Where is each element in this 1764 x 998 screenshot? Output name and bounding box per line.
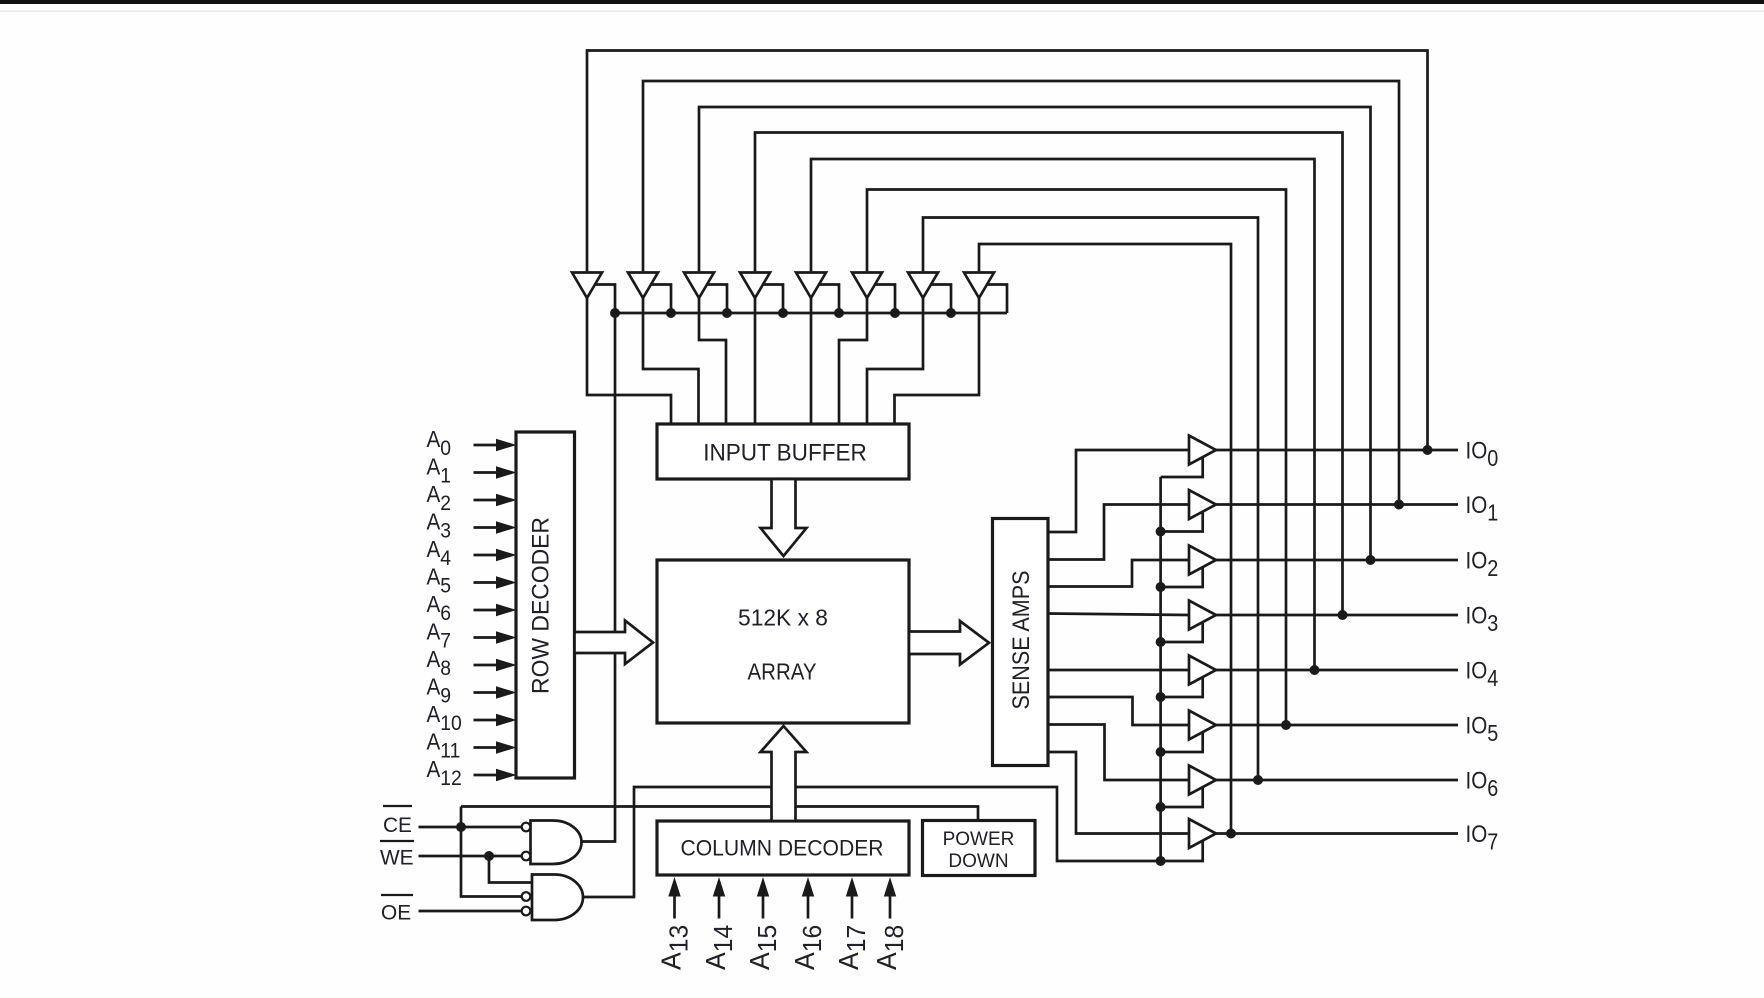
wire: buffer B7 output to INPUT BUFFER pin 7 bbox=[867, 298, 923, 424]
SENSE AMPS box bbox=[993, 519, 1049, 766]
output buffer Q3 (tri-state) bbox=[1189, 601, 1216, 630]
input A17: arrow into COLUMN DECODER and rotated label bbox=[851, 893, 854, 919]
wire: SENSE AMPS output 3 to output buffer Q3 bbox=[1048, 614, 1189, 616]
wire: WE input line bbox=[419, 855, 523, 858]
wire: output buffer Q6 enable tap bbox=[1161, 785, 1203, 807]
junction dot node IO5 bbox=[1281, 720, 1291, 730]
wire: buffer B6 enable tap bbox=[872, 285, 895, 314]
wire: SENSE AMPS output 5 to output buffer Q5 bbox=[1048, 697, 1189, 725]
svg-text:COLUMN DECODER: COLUMN DECODER bbox=[680, 835, 883, 861]
wire: IO7 feedback loop (top) from IO7 node to input buffer B8 bbox=[979, 244, 1231, 834]
wire: IO4 feedback loop (top) from IO4 node to input buffer B5 bbox=[811, 159, 1315, 670]
wire: buffer B2 output to INPUT BUFFER pin 2 bbox=[643, 298, 699, 424]
wire: buffer B5 output to INPUT BUFFER pin 5 bbox=[810, 298, 813, 424]
bus arrow: ROW DECODER to ARRAY bbox=[575, 621, 654, 665]
input A16: arrow into COLUMN DECODER and rotated label bbox=[807, 893, 810, 919]
wire: buffer B8 enable tap bbox=[984, 285, 1007, 314]
wire: WE branch down to gate G2 (uninverted input) bbox=[489, 856, 532, 883]
wire: OE input line to gate G2 bbox=[419, 910, 523, 913]
svg-text:POWER: POWER bbox=[943, 829, 1015, 850]
wire: IO1 output line bbox=[1216, 503, 1458, 506]
buffer B7 (input buffer, tri-state) bbox=[908, 273, 938, 299]
junction dot node IO2 bbox=[1366, 555, 1376, 565]
output buffer Q4 (tri-state) bbox=[1189, 656, 1216, 685]
output buffer Q1 (tri-state) bbox=[1189, 490, 1216, 519]
buffer B5 (input buffer, tri-state) bbox=[796, 273, 826, 299]
svg-text:INPUT BUFFER: INPUT BUFFER bbox=[703, 439, 867, 466]
junction dot on CE line bbox=[456, 822, 466, 832]
buffer B4 (input buffer, tri-state) bbox=[740, 273, 770, 299]
buffer B8 (input buffer, tri-state) bbox=[964, 273, 994, 299]
wire: buffer B6 output to INPUT BUFFER pin 6 bbox=[839, 298, 867, 424]
wire: buffer B1 enable tap bbox=[592, 285, 615, 314]
junction dot on enable bus at B7 bbox=[946, 308, 956, 318]
svg-text:512K x 8: 512K x 8 bbox=[738, 604, 828, 630]
svg-text:ARRAY: ARRAY bbox=[748, 658, 817, 685]
junction dot on enable bus at B4 bbox=[778, 308, 788, 318]
junction dot on output enable line at Q5 bbox=[1156, 747, 1166, 757]
wire: SENSE AMPS output 4 to output buffer Q4 bbox=[1048, 669, 1189, 672]
buffer B6 (input buffer, tri-state) bbox=[852, 273, 882, 299]
wire: SENSE AMPS output 1 to output buffer Q1 bbox=[1048, 505, 1189, 560]
junction dot on enable bus at B2 bbox=[666, 308, 676, 318]
wire: output buffer Q2 enable tap bbox=[1161, 565, 1203, 587]
input A18: arrow into COLUMN DECODER and rotated label bbox=[889, 893, 892, 919]
wire: output buffer Q3 enable tap bbox=[1161, 620, 1203, 642]
input A15: arrow into COLUMN DECODER and rotated label bbox=[762, 893, 765, 919]
wire: buffer B5 enable tap bbox=[816, 285, 839, 314]
wire: buffer B1 output to INPUT BUFFER pin 1 bbox=[587, 298, 671, 424]
junction dot on output enable line at Q2 bbox=[1156, 582, 1166, 592]
wire: CE input line bbox=[419, 826, 523, 829]
junction dot on enable bus at B1 bbox=[610, 308, 620, 318]
junction dot on WE line bbox=[484, 851, 494, 861]
junction dot node IO4 bbox=[1310, 665, 1320, 675]
POWER DOWN box bbox=[923, 821, 1036, 876]
wire: IO5 output line bbox=[1216, 724, 1458, 727]
junction dot node IO0 bbox=[1423, 445, 1433, 455]
wire: SENSE AMPS output 0 to output buffer Q0 bbox=[1048, 450, 1189, 532]
junction dot on output enable line at Q3 bbox=[1156, 637, 1166, 647]
wire: IO5 feedback loop (top) from IO5 node to input buffer B6 bbox=[867, 190, 1286, 726]
wire: buffer B7 enable tap bbox=[928, 285, 951, 314]
buffer B1 (input buffer, tri-state) bbox=[572, 273, 602, 299]
wire: IO2 output line bbox=[1216, 559, 1458, 562]
wire: CE branch up to power-down run bbox=[460, 807, 463, 828]
svg-text:CE: CE bbox=[383, 814, 412, 837]
wire: buffer B8 output to INPUT BUFFER pin 8 bbox=[895, 298, 980, 424]
output buffer Q0 (tri-state) bbox=[1189, 436, 1216, 465]
junction dot node IO7 bbox=[1226, 829, 1236, 839]
output buffer Q2 (tri-state) bbox=[1189, 546, 1216, 575]
junction dot node IO3 bbox=[1338, 610, 1348, 620]
wire: IO0 feedback loop (top) from IO0 node to input buffer B1 bbox=[587, 51, 1428, 451]
wire: IO7 output line bbox=[1216, 832, 1458, 835]
junction dot node IO1 bbox=[1394, 500, 1404, 510]
AND gate G1 (CE,WE -> write/input-buffer enable) bbox=[531, 821, 582, 865]
bus arrow: INPUT BUFFER to ARRAY bbox=[761, 479, 807, 556]
INPUT BUFFER box bbox=[657, 424, 909, 479]
wire: IO3 output line bbox=[1216, 614, 1458, 617]
wire: AND gate G2 output to output-buffer enable line bbox=[582, 787, 1203, 897]
svg-text:SENSE AMPS: SENSE AMPS bbox=[1007, 571, 1035, 710]
wire: buffer B3 output to INPUT BUFFER pin 3 bbox=[699, 298, 726, 424]
wire: buffer B2 enable tap bbox=[648, 285, 671, 314]
output buffer Q6 (tri-state) bbox=[1189, 766, 1216, 795]
wire: output buffer Q0 enable tap bbox=[1161, 455, 1203, 477]
wire: IO1 feedback loop (top) from IO1 node to input buffer B2 bbox=[643, 81, 1399, 505]
wire: IO6 feedback loop (top) from IO6 node to input buffer B7 bbox=[923, 218, 1258, 781]
input A13: arrow into COLUMN DECODER and rotated label bbox=[673, 893, 676, 919]
junction dot on enable bus at B5 bbox=[834, 308, 844, 318]
wire: SENSE AMPS output 7 to output buffer Q7 bbox=[1048, 752, 1189, 834]
junction dot on output enable line at Q1 bbox=[1156, 527, 1166, 537]
output buffer Q5 (tri-state) bbox=[1189, 711, 1216, 740]
wire: IO2 feedback loop (top) from IO2 node to input buffer B3 bbox=[699, 107, 1371, 560]
AND gate G2 (WE,CE,OE -> output enable) bbox=[532, 875, 583, 921]
512K x 8 ARRAY box bbox=[657, 560, 909, 723]
wire: buffer B3 enable tap bbox=[704, 285, 727, 314]
junction dot on output enable line at Q4 bbox=[1156, 692, 1166, 702]
junction dot on enable bus at B3 bbox=[722, 308, 732, 318]
COLUMN DECODER box bbox=[657, 821, 909, 875]
wire: CE to POWER DOWN (top run) bbox=[461, 807, 978, 821]
wire: CE branch down to gate G2 bbox=[461, 827, 522, 897]
wire: input-buffer enable bus (node WR) bbox=[615, 312, 1007, 315]
wire: output buffer Q4 enable tap bbox=[1161, 675, 1203, 697]
buffer B2 (input buffer, tri-state) bbox=[628, 273, 658, 299]
wire: buffer B4 output to INPUT BUFFER pin 4 bbox=[754, 298, 757, 424]
wire: IO3 feedback loop (top) from IO3 node to input buffer B4 bbox=[755, 133, 1343, 616]
wire: IO4 output line bbox=[1216, 669, 1458, 672]
svg-text:OE: OE bbox=[381, 901, 411, 924]
svg-text:DOWN: DOWN bbox=[948, 851, 1008, 872]
wire: IO0 output line bbox=[1216, 449, 1458, 452]
wire: IO6 output line bbox=[1216, 779, 1458, 782]
wire: output-buffer enable line (vertical) bbox=[1159, 477, 1162, 861]
wire: AND gate G1 output up to input-buffer enable bus bbox=[582, 313, 616, 842]
junction dot on enable bus at B6 bbox=[890, 308, 900, 318]
svg-text:WE: WE bbox=[380, 846, 414, 869]
wire: buffer B4 enable tap bbox=[760, 285, 783, 314]
junction dot: G2 output line meets output enable line bbox=[1156, 856, 1166, 866]
output buffer Q7 (tri-state) bbox=[1189, 819, 1216, 848]
junction dot on output enable line at Q6 bbox=[1156, 802, 1166, 812]
svg-text:ROW DECODER: ROW DECODER bbox=[527, 517, 554, 694]
wire: SENSE AMPS output 2 to output buffer Q2 bbox=[1048, 560, 1189, 587]
bus arrow: ARRAY to SENSE AMPS bbox=[909, 621, 989, 665]
junction dot node IO6 bbox=[1253, 775, 1263, 785]
wire: SENSE AMPS output 6 to output buffer Q6 bbox=[1048, 725, 1189, 781]
page top border bar bbox=[0, 0, 1764, 4]
bus arrow: COLUMN DECODER to ARRAY bbox=[761, 726, 807, 821]
input A14: arrow into COLUMN DECODER and rotated label bbox=[718, 893, 721, 919]
ROW DECODER box bbox=[516, 432, 575, 778]
wire: output buffer Q5 enable tap bbox=[1161, 730, 1203, 752]
wire: output buffer Q1 enable tap bbox=[1161, 510, 1203, 532]
buffer B3 (input buffer, tri-state) bbox=[684, 273, 714, 299]
